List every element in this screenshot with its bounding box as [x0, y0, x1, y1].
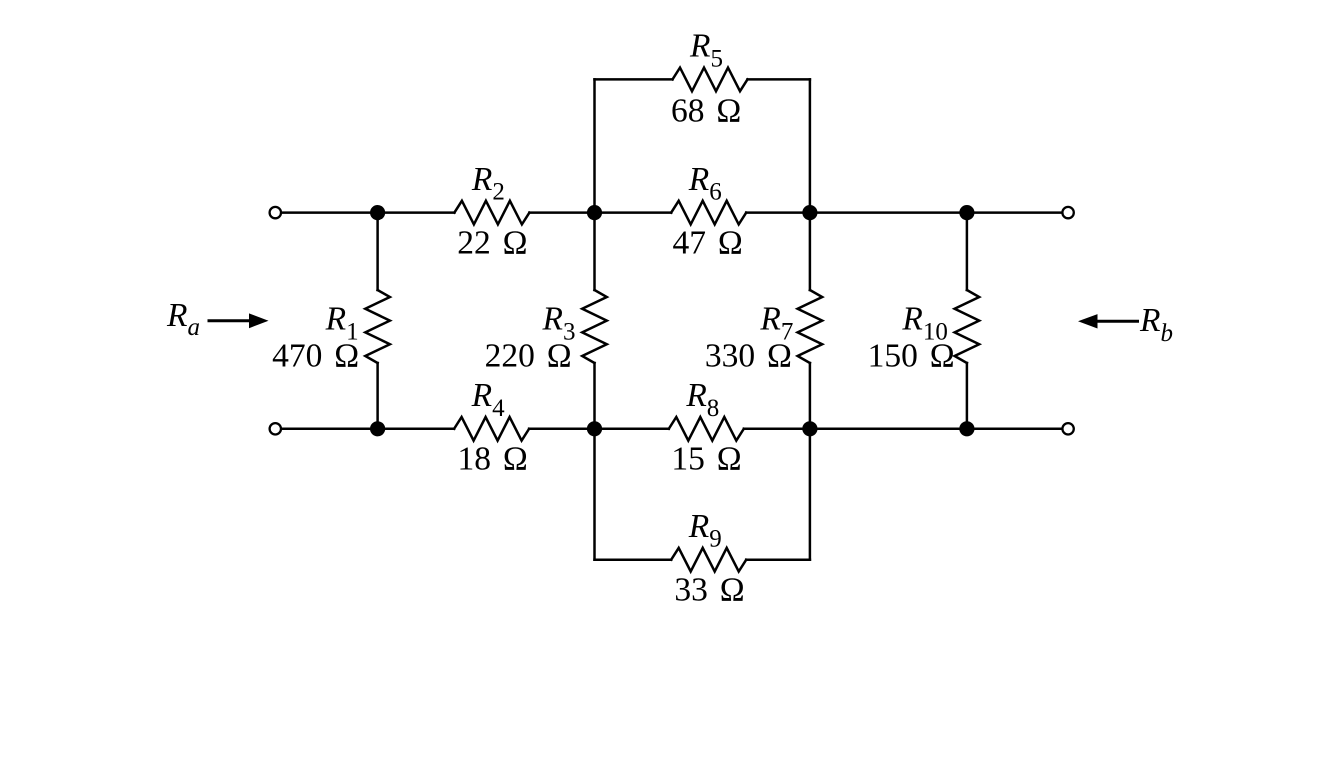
svg-text:R6: R6	[688, 161, 722, 206]
wire: R9 branch bottom, left segment	[595, 558, 672, 561]
svg-text:330 Ω: 330 Ω	[705, 338, 792, 375]
svg-text:Ra: Ra	[166, 297, 200, 341]
resistor R10 (zigzag)	[955, 290, 980, 363]
wire: R9 branch left drop	[593, 429, 596, 560]
wire: top rail, left terminal to R2	[281, 211, 454, 214]
svg-text:68 Ω: 68 Ω	[671, 93, 741, 130]
junction node R1 top	[370, 205, 385, 220]
svg-text:220 Ω: 220 Ω	[485, 338, 572, 375]
svg-text:470 Ω: 470 Ω	[272, 338, 359, 375]
resistor R3 (zigzag)	[582, 290, 607, 363]
wire: bottom rail, left terminal to R4	[281, 428, 454, 431]
resistor R9 (zigzag)	[671, 548, 746, 572]
wire: R5 branch left riser	[593, 79, 596, 212]
svg-text:R9: R9	[688, 508, 722, 553]
junction node R3/R9 bottom	[587, 421, 602, 436]
svg-text:18 Ω: 18 Ω	[457, 441, 527, 478]
wire: R1 top lead	[376, 213, 379, 290]
wire: R9 branch bottom, right segment	[746, 558, 810, 561]
resistor R6 (zigzag)	[671, 201, 746, 225]
wire: R3 top lead	[593, 213, 596, 290]
wire: bottom rail, R4 to R8	[529, 428, 669, 431]
svg-text:R4: R4	[471, 377, 505, 422]
terminal bottom-left (open circle)	[270, 423, 281, 434]
wire: R9 branch right drop	[809, 429, 812, 560]
wire: R5 branch right riser	[809, 79, 812, 212]
arrow Ra (points right)	[209, 313, 269, 328]
resistor R1 (zigzag)	[365, 290, 390, 363]
svg-text:Rb: Rb	[1139, 302, 1173, 347]
terminal bottom-right (open circle)	[1062, 423, 1073, 434]
svg-text:150 Ω: 150 Ω	[868, 338, 955, 375]
wire: bottom rail, R8 to right terminal	[744, 428, 1063, 431]
junction node R1 bottom	[370, 421, 385, 436]
junction node R10 bottom	[959, 421, 974, 436]
wire: R5 branch top, left segment	[595, 78, 673, 81]
svg-text:33 Ω: 33 Ω	[674, 572, 744, 609]
wire: top rail, R2 to R6	[529, 211, 671, 214]
wire: R10 top lead	[966, 213, 969, 290]
wire: R5 branch top, right segment	[748, 78, 810, 81]
wire: R7 top lead	[809, 213, 812, 290]
svg-text:47 Ω: 47 Ω	[673, 224, 743, 261]
resistor R2 (zigzag)	[454, 201, 529, 225]
terminal top-right (open circle)	[1062, 207, 1073, 218]
svg-text:R8: R8	[685, 377, 719, 422]
svg-text:22 Ω: 22 Ω	[457, 224, 527, 261]
junction node R3/R5 top	[587, 205, 602, 220]
junction node R7/R9 bottom	[802, 421, 817, 436]
junction node R10 top	[959, 205, 974, 220]
terminal top-left (open circle)	[270, 207, 281, 218]
wire: R1 bottom lead	[376, 363, 379, 429]
arrow Rb (points left)	[1078, 314, 1138, 328]
wire: R10 bottom lead	[966, 363, 969, 429]
wire: R7 bottom lead	[809, 363, 812, 429]
wire: top rail, R6 to right terminal	[746, 211, 1062, 214]
resistor R7 (zigzag)	[798, 290, 823, 363]
svg-text:R5: R5	[689, 28, 723, 73]
svg-text:15 Ω: 15 Ω	[671, 441, 741, 478]
resistor R8 (zigzag)	[669, 417, 744, 441]
svg-text:R2: R2	[471, 161, 505, 206]
resistor R5 (zigzag)	[673, 68, 748, 92]
junction node R7/R5 top	[802, 205, 817, 220]
wire: R3 bottom lead	[593, 363, 596, 429]
resistor R4 (zigzag)	[454, 417, 529, 441]
